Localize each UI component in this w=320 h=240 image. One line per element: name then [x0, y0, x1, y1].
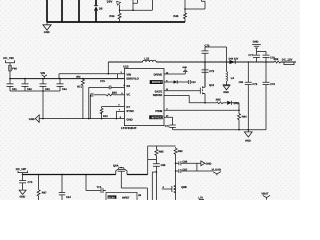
junction gnd x101.6: [101, 118, 103, 120]
svg-text:DCIN: DCIN: [108, 196, 114, 199]
svg-text:L6: L6: [231, 77, 235, 80]
svg-text:C70: C70: [28, 181, 33, 184]
svg-text:C79: C79: [252, 83, 257, 86]
wire top bus: [47, 21, 185, 23]
junction x62: [61, 174, 63, 176]
capacitor C87: [176, 169, 213, 173]
connector DC_12P: [16, 167, 28, 175]
svg-text:LT3741EUF: LT3741EUF: [121, 126, 137, 130]
junction bus x25: [24, 78, 26, 80]
svg-text:C62: C62: [27, 88, 32, 91]
svg-text:R45: R45: [173, 15, 178, 18]
wire link y172: [152, 171, 156, 173]
junction bus x60: [59, 78, 61, 80]
net label VIN flag: [40, 71, 47, 78]
capacitor C70: [19, 175, 26, 190]
svg-text:DC_12V: DC_12V: [282, 57, 293, 61]
svg-text:R94: R94: [242, 116, 247, 119]
svg-text:R95: R95: [159, 151, 164, 154]
wire top vertical 1: [46, 0, 48, 22]
wire link verticals: [196, 163, 198, 171]
pin label DCIN inverted: [108, 195, 117, 199]
svg-text:VIN: VIN: [40, 71, 45, 75]
capacitor C76: [263, 62, 270, 130]
label L70: [198, 196, 204, 199]
wire VIN node vertical: [107, 62, 109, 74]
wire Q8B gate: [162, 188, 172, 190]
wire EN jog: [117, 74, 119, 79]
ground C70: [19, 190, 26, 198]
svg-text:DC_12P: DC_12P: [16, 167, 27, 171]
capacitor C72: [202, 62, 209, 87]
svg-text:C63: C63: [45, 88, 50, 91]
ground top caps: [252, 41, 266, 55]
svg-text:GND: GND: [126, 118, 132, 122]
svg-text:R71: R71: [77, 86, 82, 89]
capacitor C73 loop: [202, 47, 227, 62]
svg-text:GND: GND: [223, 91, 229, 94]
junction bus R71: [82, 78, 84, 80]
svg-text:EN/UVLO: EN/UVLO: [126, 76, 139, 80]
svg-text:C71: C71: [165, 125, 170, 128]
ground GND top-left: [43, 22, 51, 34]
wire Q8A out: [127, 174, 148, 176]
svg-text:2R2: 2R2: [76, 76, 81, 79]
svg-text:C76: C76: [270, 83, 275, 86]
resistor R97: [37, 175, 40, 201]
fuse F66: [9, 65, 12, 71]
svg-text:L70: L70: [198, 196, 203, 199]
svg-text:C64: C64: [62, 88, 67, 91]
connector VBAT: [261, 193, 270, 200]
capacitor C10 boost: [188, 80, 196, 84]
resistor R82 VC: [94, 94, 125, 96]
resistor R71 divider: [81, 79, 84, 119]
junction gnd x88.8: [88, 118, 90, 120]
wire horizontal y10: [120, 0, 153, 10]
svg-text:BOOST: BOOST: [152, 80, 162, 84]
junction gnd x43: [42, 118, 44, 120]
junction x156.4 y172: [156, 171, 158, 173]
IC U20 box bottom: [106, 192, 137, 200]
connector stub x133: [133, 0, 137, 10]
junction rail x239: [238, 129, 240, 131]
junction bus x10: [9, 78, 11, 80]
svg-text:R13: R13: [103, 115, 108, 118]
capacitor C61: [7, 79, 14, 91]
svg-text:R92: R92: [178, 150, 183, 153]
capacitor C75 SS: [89, 86, 125, 119]
transistor Q8A: [116, 167, 127, 175]
svg-text:C80: C80: [239, 81, 244, 84]
wire PWM pin: [164, 109, 239, 111]
junction FET source: [204, 102, 206, 104]
transistor Q8B: [172, 184, 176, 200]
ground bottom right: [244, 130, 252, 143]
wire DRIVE pin: [164, 72, 185, 74]
capacitor C62: [22, 79, 29, 91]
svg-text:C61: C61: [12, 88, 17, 91]
capacitor C79: [245, 62, 252, 130]
junction PWM x239: [238, 109, 240, 111]
resistor R45: [184, 13, 187, 19]
svg-text:VBAT: VBAT: [261, 193, 268, 196]
svg-text:SENSE: SENSE: [153, 93, 163, 97]
svg-text:C72: C72: [209, 70, 214, 73]
wire Q8A gate: [121, 171, 147, 200]
pin label BOOST inverted: [150, 80, 163, 84]
svg-text:C10: C10: [191, 81, 196, 84]
svg-text:R06: R06: [274, 58, 279, 61]
svg-text:GND: GND: [29, 118, 35, 121]
svg-text:U13: U13: [123, 65, 129, 69]
junction VIN node: [108, 73, 110, 75]
svg-text:GND: GND: [20, 196, 26, 199]
svg-text:INFET: INFET: [122, 196, 130, 199]
resistor R92: [174, 147, 177, 184]
wire GATE pin: [164, 90, 200, 92]
resistor R95: [155, 146, 158, 164]
wire vertical x152.3: [151, 172, 153, 200]
svg-text:VLOAD: VLOAD: [212, 169, 221, 172]
resistor R06: [274, 61, 280, 63]
capacitor C77: [253, 55, 260, 62]
svg-text:GND: GND: [44, 31, 50, 34]
svg-text:C85: C85: [161, 164, 166, 167]
resistor R94: [238, 103, 241, 130]
svg-text:C87: C87: [182, 168, 187, 171]
wire top feedback: [148, 145, 176, 147]
resistor R05 sense: [205, 102, 227, 104]
svg-text:DRIVE: DRIVE: [154, 73, 163, 77]
capacitor C86: [176, 161, 201, 165]
svg-text:INTVCC: INTVCC: [152, 115, 162, 119]
svg-text:R97: R97: [42, 192, 47, 195]
junction x38.6: [38, 174, 40, 176]
capacitor C85: [153, 164, 160, 172]
wire SENSE pin: [164, 95, 205, 102]
capacitor T7A branch: [86, 175, 106, 194]
wire drain-source vertical: [204, 62, 206, 103]
wire signal ground rail: [39, 118, 124, 120]
svg-text:R34: R34: [109, 15, 114, 18]
diode D46 arrow: [227, 101, 239, 105]
wire cap ground rail: [10, 90, 60, 92]
junction rail x226.5: [226, 61, 228, 63]
wire jog y159.6: [148, 159, 157, 161]
wire branch y9: [185, 0, 205, 9]
capacitor C78: [263, 55, 270, 62]
svg-text:GND: GND: [245, 140, 251, 143]
svg-text:T7A: T7A: [97, 186, 102, 189]
input flag arrow top: [117, 1, 121, 10]
wire riser x147.7: [147, 146, 149, 175]
svg-text:C86: C86: [182, 161, 187, 164]
background paper: [0, 0, 300, 200]
power bars DRIVE: [182, 66, 187, 72]
wire fuse to bus: [9, 71, 11, 79]
connector DC_12V: [282, 57, 294, 64]
diode D44: [227, 60, 249, 64]
capacitor C71 intvcc: [164, 117, 176, 129]
svg-text:(4A): (4A): [234, 102, 239, 105]
svg-text:F66: F66: [12, 67, 17, 70]
svg-text:R05: R05: [216, 98, 221, 101]
svg-text:Q13: Q13: [209, 84, 215, 87]
wire vertical x156.4: [155, 172, 157, 200]
svg-text:GND: GND: [206, 162, 212, 165]
junction gnd x116.4: [116, 118, 118, 120]
svg-text:GND: GND: [253, 41, 259, 44]
svg-text:GND: GND: [182, 66, 187, 69]
connector VLOAD: [212, 169, 221, 176]
diode D6: [94, 6, 98, 11]
junction x175.6 y171: [175, 170, 177, 172]
wire caps to signal ground: [42, 91, 44, 119]
svg-text:R82: R82: [112, 92, 117, 95]
junction bus x43: [42, 78, 44, 80]
junction x175.6 y163.3: [175, 163, 177, 165]
junction R34 bus: [119, 21, 121, 23]
capacitor C8J: [59, 175, 65, 201]
junction x119.6: [119, 9, 121, 11]
junction gnd rail x43: [42, 90, 44, 92]
svg-text:SS: SS: [126, 84, 130, 88]
ground flag left: [29, 115, 39, 122]
svg-text:Q8A: Q8A: [113, 165, 119, 168]
wire bottom main: [23, 174, 116, 176]
inductor L6: [226, 62, 229, 85]
wire VIN feed: [59, 74, 125, 79]
transistor Q13: [200, 86, 205, 94]
svg-text:PWM: PWM: [155, 109, 163, 113]
capacitor C74 VC: [90, 93, 93, 119]
svg-text:SYNC: SYNC: [126, 109, 134, 113]
svg-text:L13: L13: [144, 56, 149, 60]
junction x22.6: [22, 174, 24, 176]
ground flag right: [201, 161, 212, 166]
svg-text:C77: C77: [248, 54, 253, 57]
wire SYNC to ground: [116, 111, 124, 118]
capacitor C64: [57, 79, 64, 91]
diode D45 boost: [164, 80, 188, 83]
junction rail x266: [265, 61, 267, 63]
IC U13 box: [125, 69, 165, 126]
wire rail 62 right: [156, 61, 296, 63]
svg-text:C73: C73: [204, 45, 209, 48]
capacitor C63: [40, 79, 47, 91]
wire top vertical 3: [78, 0, 80, 22]
connector DC_VIN: [3, 56, 14, 65]
wire rail 62 left: [108, 61, 142, 63]
wire top vertical 4 with diode gap: [95, 0, 97, 22]
svg-text:C75: C75: [100, 80, 105, 83]
resistor R34: [118, 10, 121, 22]
ground L6: [223, 85, 231, 94]
resistor R13 RT: [100, 107, 124, 119]
junction x86: [85, 174, 87, 176]
svg-text:C8J: C8J: [66, 196, 71, 199]
svg-text:D6: D6: [99, 6, 103, 10]
svg-text:Q8B: Q8B: [181, 186, 187, 189]
wire top vertical 2: [61, 0, 63, 22]
svg-text:D5V: D5V: [107, 0, 113, 4]
junction rail x205: [204, 61, 206, 63]
svg-text:D44 12V: D44 12V: [229, 57, 239, 60]
junction rail x248.3: [248, 129, 250, 131]
inductor L13: [143, 60, 157, 62]
junction rail x248.3: [248, 61, 250, 63]
wire vertical x185: [184, 0, 186, 22]
pin label INTVCC inverted: [149, 115, 163, 119]
svg-text:VC: VC: [126, 93, 130, 97]
wire input bus: [10, 78, 125, 80]
junction x133: [132, 9, 134, 11]
svg-text:DC_VIN: DC_VIN: [3, 56, 13, 60]
junction x185 y9: [184, 8, 186, 10]
wire bottom ground rail: [173, 129, 266, 131]
